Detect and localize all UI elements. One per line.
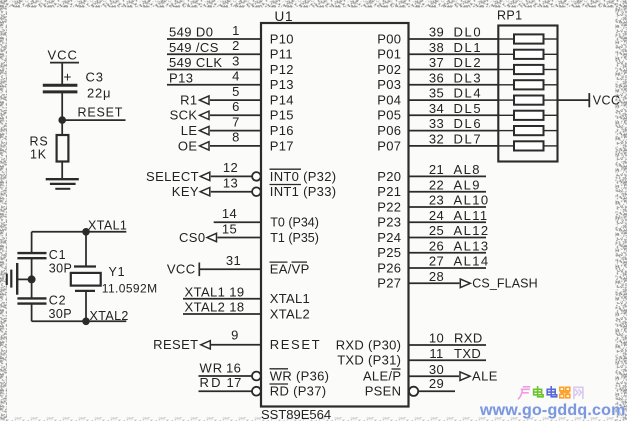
svg-text:AL14: AL14	[454, 254, 490, 269]
svg-text:XTAL2 18: XTAL2 18	[185, 300, 245, 315]
svg-text:8: 8	[232, 130, 240, 145]
svg-text:P07: P07	[377, 138, 401, 153]
svg-text:XTAL2: XTAL2	[90, 309, 129, 323]
svg-text:P22: P22	[377, 199, 401, 214]
svg-text:XTAL2: XTAL2	[270, 306, 310, 321]
svg-text:DL2: DL2	[454, 55, 483, 70]
svg-text:39: 39	[429, 25, 444, 40]
svg-text:KEY: KEY	[172, 184, 199, 199]
svg-text:AL11: AL11	[454, 208, 489, 223]
svg-text:DL4: DL4	[454, 86, 483, 101]
svg-text:RXD: RXD	[454, 331, 483, 346]
svg-text:XTAL1 19: XTAL1 19	[185, 284, 245, 299]
svg-text:12: 12	[223, 160, 238, 175]
svg-text:6: 6	[232, 99, 240, 114]
svg-text:38: 38	[429, 40, 444, 55]
svg-text:P15: P15	[270, 108, 294, 123]
svg-text:15: 15	[222, 221, 237, 236]
svg-text:13: 13	[223, 176, 238, 191]
svg-text:P27: P27	[377, 276, 401, 291]
svg-text:1: 1	[232, 23, 240, 38]
svg-text:INT0 (P32): INT0 (P32)	[270, 169, 337, 184]
svg-text:P13: P13	[270, 77, 294, 92]
svg-text:P01: P01	[377, 47, 401, 62]
svg-text:P16: P16	[270, 123, 294, 138]
svg-text:34: 34	[429, 101, 444, 116]
svg-text:31: 31	[226, 253, 241, 268]
svg-text:AL10: AL10	[454, 193, 490, 208]
svg-text:XTAL1: XTAL1	[270, 291, 310, 306]
svg-text:+: +	[64, 70, 72, 85]
svg-text:CS_FLASH: CS_FLASH	[472, 277, 537, 291]
svg-text:P03: P03	[377, 77, 401, 92]
svg-text:RS: RS	[30, 135, 49, 149]
svg-text:P11: P11	[270, 47, 293, 62]
svg-text:W: W	[200, 361, 213, 376]
svg-text:P25: P25	[377, 245, 401, 260]
svg-text:TXD (P31): TXD (P31)	[337, 353, 401, 368]
svg-text:EA/VP: EA/VP	[270, 262, 310, 277]
svg-text:P06: P06	[377, 123, 401, 138]
svg-text:30P: 30P	[49, 307, 72, 321]
svg-text:C3: C3	[86, 70, 104, 85]
svg-text:24: 24	[429, 208, 444, 223]
svg-text:R1: R1	[180, 93, 197, 108]
svg-text:T0 (P34): T0 (P34)	[270, 216, 319, 230]
svg-text:16: 16	[226, 361, 241, 376]
svg-text:C2: C2	[49, 294, 67, 308]
svg-text:DL5: DL5	[454, 101, 483, 116]
svg-text:DL0: DL0	[454, 25, 483, 40]
svg-text:RP1: RP1	[497, 9, 523, 23]
svg-text:T1 (P35): T1 (P35)	[270, 231, 319, 245]
svg-text:RD (P37): RD (P37)	[270, 384, 327, 399]
svg-text:LE: LE	[181, 123, 198, 138]
svg-text:RESET: RESET	[78, 106, 124, 120]
svg-text:R: R	[213, 361, 223, 376]
svg-text:22: 22	[429, 177, 444, 192]
svg-text:11: 11	[429, 346, 443, 361]
svg-text:AL9: AL9	[454, 177, 481, 192]
svg-text:DL3: DL3	[454, 70, 483, 85]
svg-text:AL13: AL13	[454, 238, 490, 253]
svg-text:27: 27	[429, 254, 444, 269]
svg-text:CS0: CS0	[179, 230, 206, 245]
svg-text:P04: P04	[377, 93, 401, 108]
svg-text:17: 17	[227, 375, 242, 390]
svg-text:P02: P02	[377, 62, 401, 77]
svg-text:DL1: DL1	[454, 40, 483, 55]
svg-text:VCC: VCC	[593, 94, 621, 108]
svg-text:549 /CS: 549 /CS	[169, 40, 219, 55]
svg-text:30: 30	[429, 362, 444, 377]
svg-text:XTAL1: XTAL1	[88, 218, 127, 232]
svg-text:P13: P13	[169, 70, 193, 85]
svg-text:33: 33	[429, 116, 444, 131]
svg-text:P26: P26	[377, 260, 401, 275]
svg-text:P10: P10	[270, 31, 294, 46]
svg-text:U1: U1	[275, 9, 294, 24]
svg-text:SCK: SCK	[170, 108, 198, 123]
svg-text:3: 3	[232, 53, 240, 68]
svg-text:22μ: 22μ	[87, 86, 111, 101]
svg-text:P24: P24	[377, 230, 401, 245]
svg-text:26: 26	[429, 238, 444, 253]
svg-text:RESET: RESET	[153, 337, 198, 352]
svg-text:Y1: Y1	[109, 265, 126, 279]
svg-text:AL12: AL12	[454, 223, 490, 238]
svg-text:23: 23	[429, 193, 444, 208]
svg-text:VCC: VCC	[48, 48, 78, 63]
svg-text:OE: OE	[178, 138, 198, 153]
svg-text:P17: P17	[270, 138, 294, 153]
svg-text:5: 5	[232, 84, 240, 99]
svg-text:28: 28	[429, 269, 444, 284]
svg-text:TXD: TXD	[454, 346, 481, 361]
svg-text:7: 7	[232, 114, 240, 129]
svg-text:AL8: AL8	[454, 162, 481, 177]
svg-text:www.go-gddq.com: www.go-gddq.com	[479, 402, 626, 419]
svg-text:DL6: DL6	[454, 116, 483, 131]
svg-text:32: 32	[429, 132, 444, 147]
svg-text:14: 14	[222, 206, 237, 221]
svg-text:WR (P36): WR (P36)	[270, 368, 329, 383]
svg-text:37: 37	[429, 55, 444, 70]
svg-text:P23: P23	[377, 215, 401, 230]
svg-text:25: 25	[429, 223, 444, 238]
svg-text:2: 2	[232, 38, 240, 53]
svg-text:SST89E564: SST89E564	[261, 407, 331, 421]
svg-text:11.0592M: 11.0592M	[102, 282, 158, 296]
svg-text:VCC: VCC	[167, 262, 196, 277]
svg-text:P00: P00	[377, 31, 401, 46]
svg-text:INT1 (P33): INT1 (P33)	[270, 184, 337, 199]
svg-text:29: 29	[429, 376, 444, 391]
svg-text:549 CLK: 549 CLK	[169, 55, 222, 70]
svg-text:9: 9	[231, 328, 239, 343]
svg-text:RESET: RESET	[270, 337, 321, 352]
svg-text:P21: P21	[377, 184, 401, 199]
svg-text:P12: P12	[270, 62, 294, 77]
svg-text:36: 36	[429, 70, 444, 85]
svg-text:RD: RD	[200, 375, 223, 390]
svg-text:10: 10	[429, 331, 444, 346]
svg-text:549 D0: 549 D0	[169, 25, 213, 40]
svg-text:ALE: ALE	[472, 369, 498, 384]
svg-text:35: 35	[429, 86, 444, 101]
svg-text:P20: P20	[377, 169, 401, 184]
svg-text:RXD (P30): RXD (P30)	[336, 337, 402, 352]
svg-text:P05: P05	[377, 108, 401, 123]
svg-text:DL7: DL7	[454, 132, 483, 147]
svg-text:P14: P14	[270, 93, 294, 108]
svg-text:21: 21	[429, 162, 444, 177]
svg-text:PSEN: PSEN	[365, 384, 402, 399]
svg-text:SELECT: SELECT	[146, 169, 199, 184]
svg-text:C1: C1	[49, 248, 67, 262]
svg-text:30P: 30P	[49, 262, 72, 276]
svg-text:4: 4	[232, 69, 240, 84]
svg-text:ALE/P: ALE/P	[363, 369, 401, 384]
svg-text:1K: 1K	[30, 148, 47, 162]
